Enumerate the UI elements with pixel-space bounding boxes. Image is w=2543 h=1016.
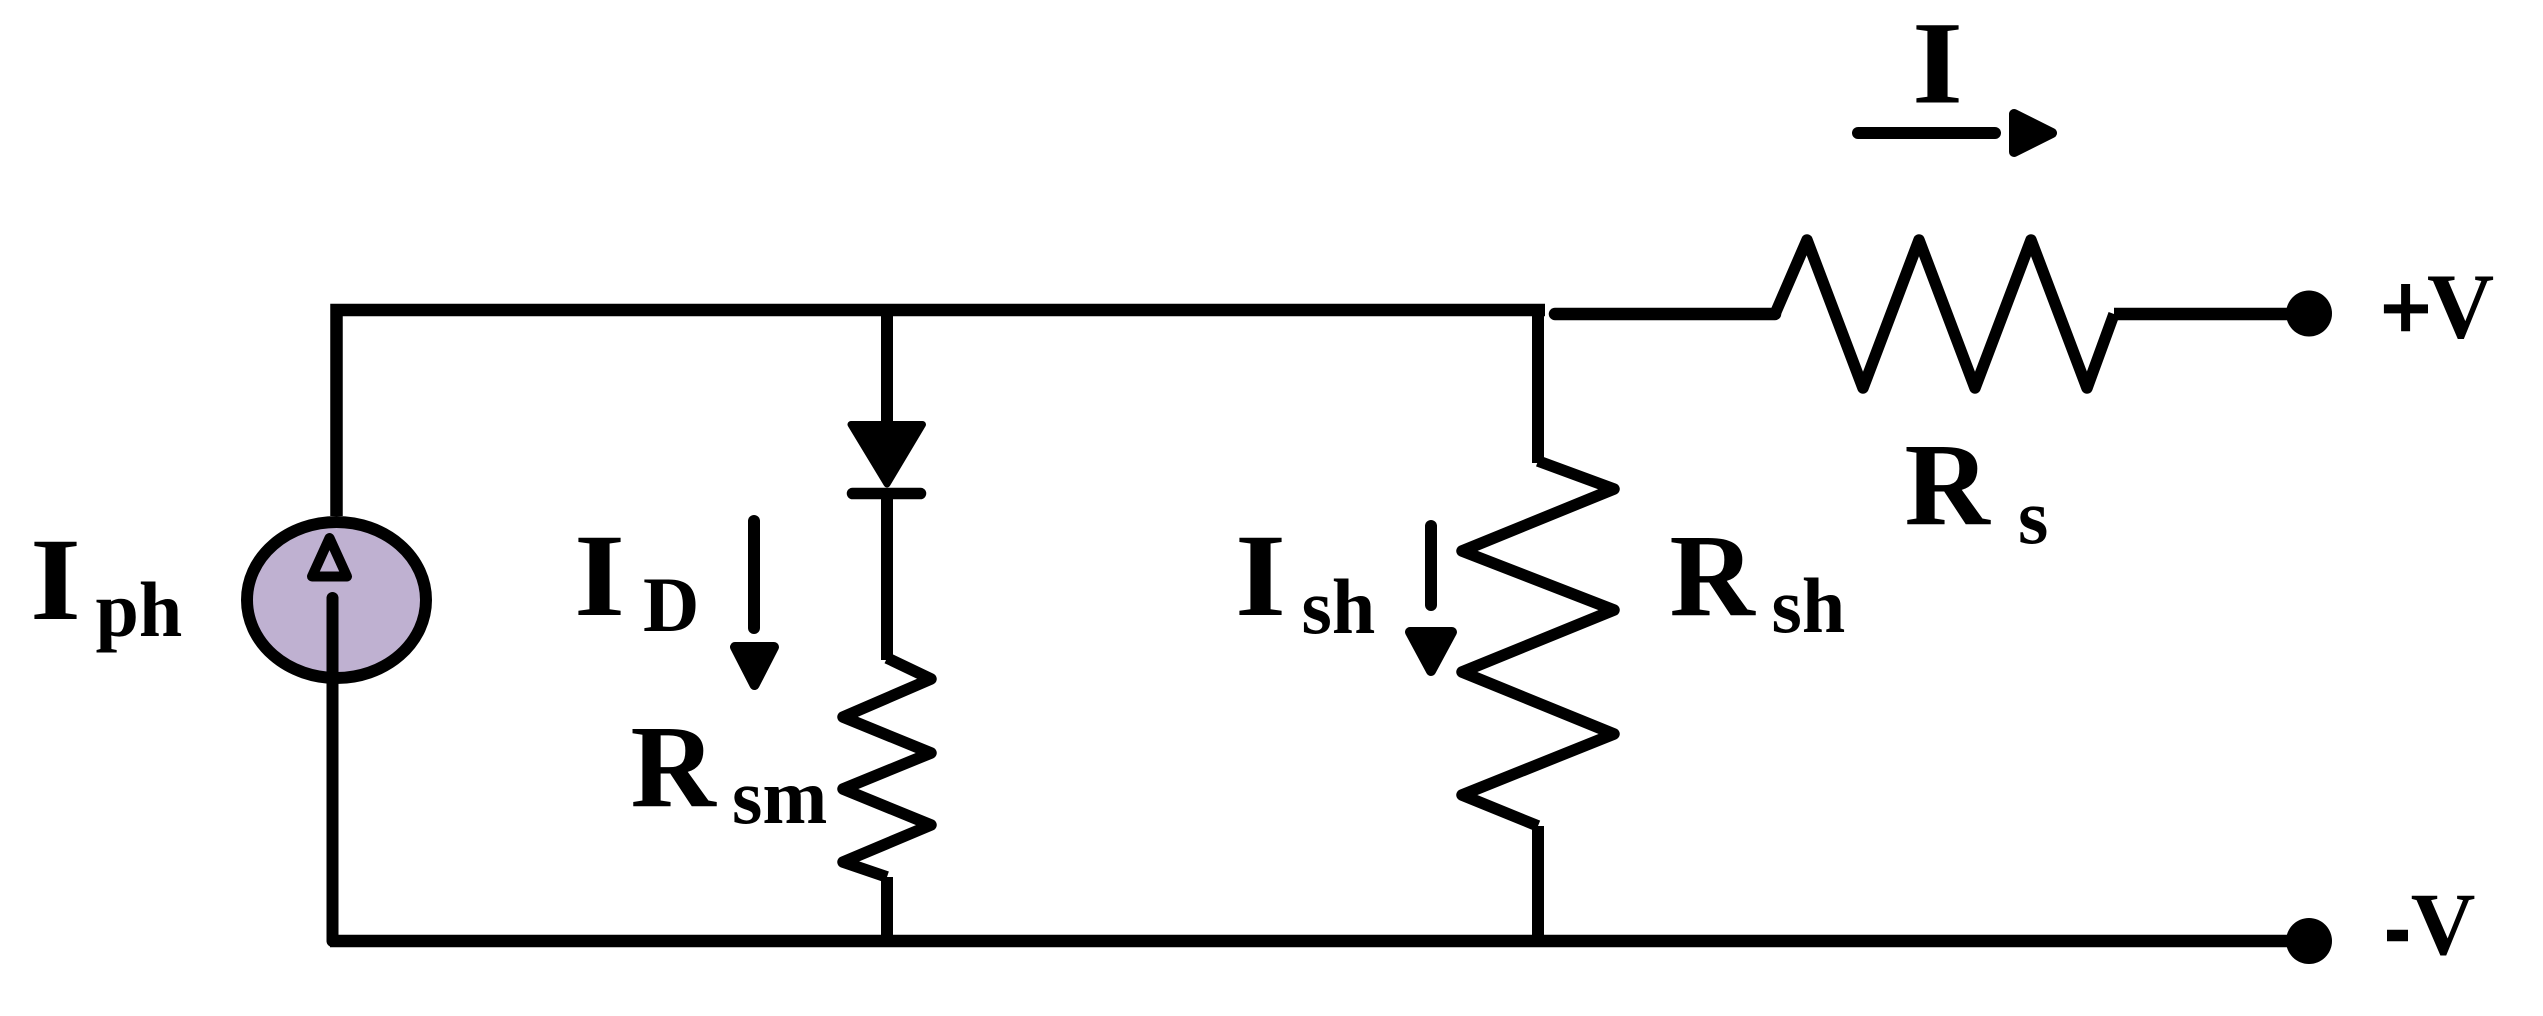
svg-text:D: D <box>643 561 699 648</box>
svg-text:ph: ph <box>96 566 183 653</box>
wire: left branch below current source (arrow shaft) <box>327 598 339 941</box>
label -V <box>2387 930 2408 942</box>
current arrow Ish <box>1425 526 1437 605</box>
resistor Rs zigzag <box>1775 240 2114 388</box>
svg-text:R: R <box>1905 419 1992 550</box>
svg-text:V: V <box>2427 256 2494 359</box>
wire: Rs to +V terminal <box>2114 308 2309 321</box>
label +V <box>2384 304 2428 313</box>
svg-text:V: V <box>2411 875 2476 974</box>
current source Iph circle <box>247 522 426 678</box>
svg-text:I: I <box>30 514 81 645</box>
diode D1 cathode bar <box>853 488 921 500</box>
wire: diode branch top <box>881 304 893 427</box>
wire: diode to Rsm <box>881 493 893 660</box>
wire: Rsh to bottom bus <box>1532 826 1544 947</box>
wire: Rsm to bottom bus <box>881 877 893 947</box>
current source arrow head (triangle outline) <box>312 538 347 577</box>
current arrow I (top) <box>1858 127 1995 139</box>
svg-text:R: R <box>631 701 718 832</box>
wire: top bus from node A corner down-left branch <box>337 310 1546 516</box>
diode D1 triangle <box>851 425 923 485</box>
svg-text:sh: sh <box>1772 562 1846 649</box>
svg-text:sm: sm <box>732 753 827 840</box>
svg-text:I: I <box>1235 510 1286 641</box>
terminal node -V dot <box>2286 918 2332 964</box>
resistor Rsh zigzag <box>1462 461 1614 826</box>
svg-text:s: s <box>2018 473 2048 560</box>
current arrow ID <box>748 521 760 628</box>
wire: node A to Rs <box>1555 308 1775 321</box>
wire: Rsh branch top <box>1532 304 1544 463</box>
svg-text:R: R <box>1670 510 1757 641</box>
svg-text:I: I <box>574 510 625 641</box>
svg-text:sh: sh <box>1302 563 1376 650</box>
svg-text:I: I <box>1912 0 1963 129</box>
terminal node +V dot <box>2286 291 2332 337</box>
resistor Rsm zigzag <box>843 658 931 877</box>
wire: bottom bus <box>330 935 2288 948</box>
